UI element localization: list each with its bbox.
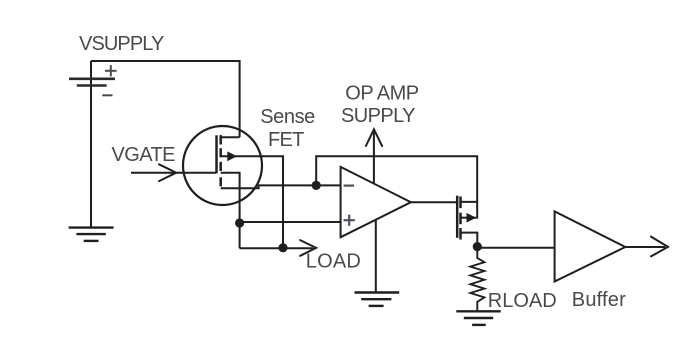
svg-text:VGATE: VGATE [112,144,176,166]
svg-text:Sense: Sense [260,106,315,128]
svg-text:FET: FET [268,129,304,151]
svg-text:LOAD: LOAD [306,251,361,273]
svg-text:RLOAD: RLOAD [488,290,557,312]
svg-text:SUPPLY: SUPPLY [341,105,415,127]
svg-text:OP AMP: OP AMP [345,83,418,105]
svg-text:VSUPPLY: VSUPPLY [79,33,164,55]
svg-text:Buffer: Buffer [572,289,626,311]
